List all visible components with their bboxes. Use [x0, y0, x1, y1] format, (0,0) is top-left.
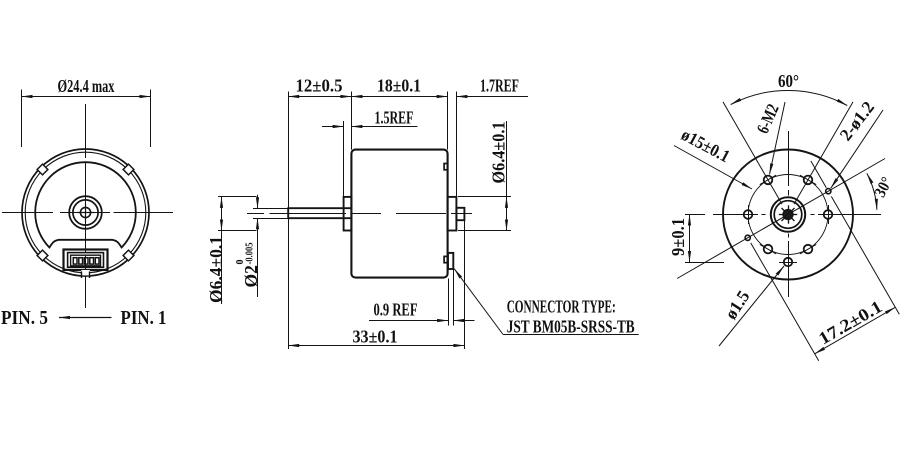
- svg-text:Ø6.4±0.1: Ø6.4±0.1: [489, 122, 509, 184]
- svg-text:-0.005: -0.005: [245, 243, 256, 265]
- svg-text:PIN. 5: PIN. 5: [1, 308, 48, 329]
- svg-text:60°: 60°: [778, 71, 799, 91]
- svg-text:12±0.5: 12±0.5: [296, 76, 343, 96]
- svg-text:33±0.1: 33±0.1: [353, 326, 398, 346]
- svg-text:0.9 REF: 0.9 REF: [374, 300, 418, 320]
- svg-text:Ø6.4±0.1: Ø6.4±0.1: [206, 236, 226, 303]
- svg-text:Ø2: Ø2: [241, 265, 261, 287]
- svg-text:1.5REF: 1.5REF: [375, 107, 414, 127]
- svg-text:JST BM05B-SRSS-TB: JST BM05B-SRSS-TB: [507, 316, 635, 336]
- svg-text:CONNECTOR TYPE:: CONNECTOR TYPE:: [507, 296, 616, 316]
- svg-text:1.7REF: 1.7REF: [480, 76, 519, 96]
- svg-text:9±0.1: 9±0.1: [668, 218, 688, 256]
- svg-text:18±0.1: 18±0.1: [377, 76, 421, 96]
- svg-text:PIN. 1: PIN. 1: [121, 308, 167, 329]
- svg-text:Ø24.4 max: Ø24.4 max: [58, 76, 115, 96]
